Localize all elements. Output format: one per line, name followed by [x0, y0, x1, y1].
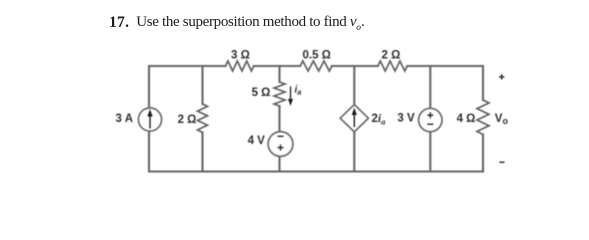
svg-text:2 Ω: 2 Ω	[381, 50, 400, 62]
svg-text:Vo: Vo	[495, 113, 509, 126]
svg-text:ia: ia	[295, 85, 302, 97]
svg-text:4 V: 4 V	[248, 135, 266, 147]
svg-text:3 A: 3 A	[116, 113, 133, 125]
svg-text:3 V: 3 V	[397, 113, 415, 125]
svg-text:5 Ω: 5 Ω	[252, 87, 271, 99]
svg-text:4 Ω: 4 Ω	[457, 113, 476, 125]
svg-text:2ia: 2ia	[372, 113, 387, 127]
svg-text:0.5 Ω: 0.5 Ω	[302, 50, 330, 62]
svg-text:3 Ω: 3 Ω	[231, 50, 250, 62]
svg-text:2 Ω: 2 Ω	[178, 114, 197, 126]
